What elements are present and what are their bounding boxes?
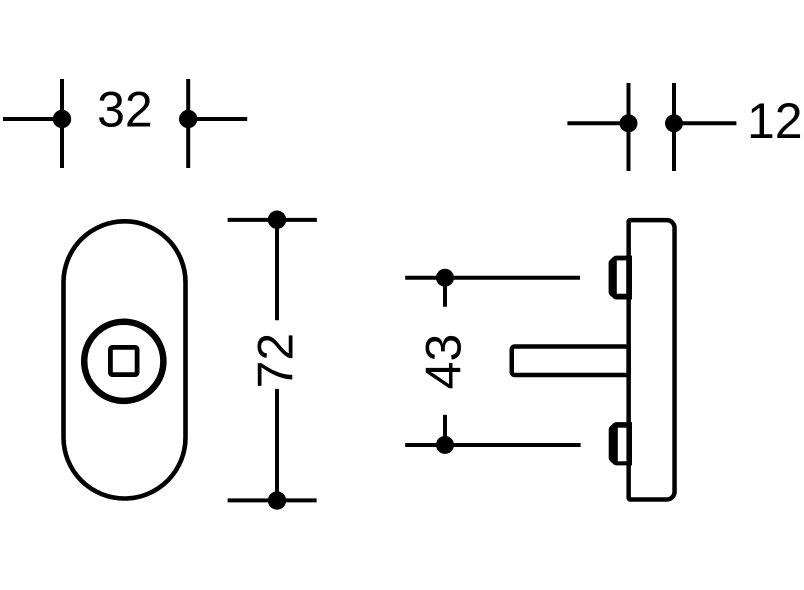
rosette front view outer stadium contour	[64, 221, 186, 498]
dim-72 terminator dot top	[268, 211, 286, 229]
svg-text:12: 12	[747, 93, 803, 149]
side view spindle bar	[512, 347, 629, 375]
dim-12 extension line left	[627, 83, 631, 171]
dim-12 terminator dot right	[665, 114, 683, 132]
dim-12 terminator dot left	[620, 114, 638, 132]
dim-32 terminator dot right	[179, 110, 197, 128]
side view top fixing clip slot	[617, 260, 627, 293]
side view bottom fixing clip	[609, 422, 632, 465]
dim-72 dimension line lower segment	[275, 389, 279, 501]
dim-43 terminator dot top	[436, 269, 454, 287]
dim-32 extension line left	[60, 79, 64, 168]
side view bottom fixing clip slot	[618, 428, 627, 462]
dim-43 dimension line lower segment	[443, 415, 447, 445]
side view top fixing clip	[609, 256, 632, 300]
dim-72 dimension line upper segment	[275, 220, 279, 321]
dim-72 terminator dot bottom	[268, 491, 286, 509]
dim-43 dimension line upper segment	[443, 278, 447, 307]
dim-43 bottom leader line	[405, 443, 580, 447]
dim-32 terminator dot left	[53, 110, 71, 128]
rosette front view square spindle hole	[110, 347, 137, 374]
dim-12 extension line right	[672, 83, 676, 171]
dim-12 horizontal leader left	[567, 121, 632, 125]
dim-43 top leader line	[405, 276, 580, 280]
dim-32 extension line right	[186, 79, 190, 168]
dim-12 horizontal leader right	[670, 121, 736, 125]
svg-text:43: 43	[416, 334, 472, 390]
svg-text:32: 32	[97, 82, 153, 138]
svg-text:72: 72	[248, 333, 304, 389]
dim-43 terminator dot bottom	[436, 436, 454, 454]
side view rosette plate contour	[629, 220, 675, 499]
dim-72 bottom leader tick	[228, 498, 317, 502]
dim-72 top leader tick	[228, 218, 317, 222]
rosette front view turn knob circle	[84, 322, 163, 401]
dim-32 horizontal leader left	[3, 117, 66, 121]
dim-32 horizontal leader right	[184, 117, 247, 121]
